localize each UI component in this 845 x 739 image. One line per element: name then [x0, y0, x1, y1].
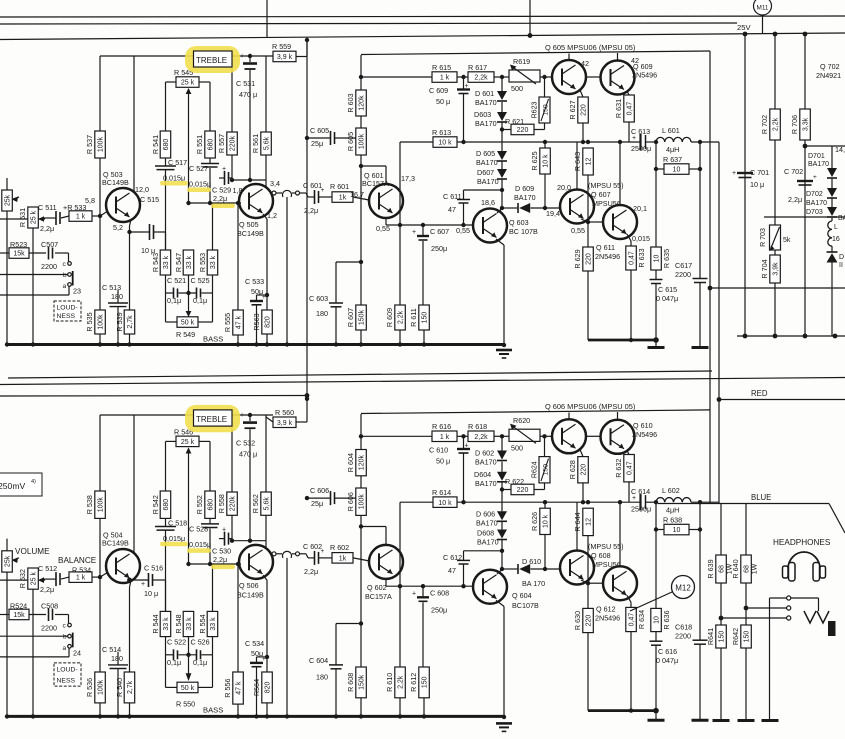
potentiometer R623	[544, 77, 546, 97]
wire Q603 emitter ground	[496, 239, 504, 245]
svg-text:C 616: C 616	[658, 647, 677, 656]
svg-text:3,9 k: 3,9 k	[277, 420, 293, 427]
transistor Q504	[106, 549, 140, 583]
resistor R539	[124, 310, 135, 334]
svg-text:1k: 1k	[339, 556, 347, 563]
svg-text:4μH: 4μH	[666, 505, 679, 514]
svg-text:LOUD-: LOUD-	[57, 305, 78, 312]
svg-text:68: 68	[744, 565, 751, 573]
wire R562 column	[265, 415, 267, 492]
svg-text:150: 150	[422, 312, 429, 324]
svg-text:150: 150	[422, 676, 429, 688]
connector input jacks	[272, 552, 276, 556]
wire R561 column	[265, 56, 267, 132]
svg-text:(MPSU 55): (MPSU 55)	[588, 542, 624, 551]
svg-text:10: 10	[673, 167, 681, 174]
svg-text:+: +	[262, 294, 266, 301]
svg-text:+: +	[412, 229, 416, 236]
svg-text:33 k: 33 k	[210, 617, 217, 631]
svg-text:1 k: 1 k	[440, 434, 450, 441]
wire output line y288	[708, 286, 713, 291]
capacitor C615	[655, 270, 657, 279]
svg-text:C 603: C 603	[309, 294, 328, 303]
svg-text:R 608: R 608	[346, 673, 355, 692]
wire Q607 emitter node	[581, 219, 588, 222]
svg-text:10 k: 10 k	[438, 500, 452, 507]
wire R533 to base	[92, 215, 100, 217]
svg-text:R 538: R 538	[85, 495, 94, 514]
svg-text:BA170: BA170	[476, 519, 498, 528]
svg-text:R564: R564	[252, 679, 261, 696]
svg-text:10 μ: 10 μ	[750, 180, 764, 189]
wire top bus 3 supply 25V	[0, 33, 845, 40]
svg-text:2,7k: 2,7k	[127, 680, 134, 694]
svg-text:+: +	[321, 548, 325, 555]
svg-text:5,6k: 5,6k	[264, 497, 271, 511]
potentiometer R550 bass 50k	[177, 682, 198, 693]
svg-text:BA170: BA170	[808, 161, 829, 168]
svg-text:RED: RED	[751, 389, 768, 398]
svg-text:BA170: BA170	[475, 458, 497, 467]
resistor R636	[655, 502, 657, 608]
svg-text:180: 180	[316, 309, 328, 318]
diode D704	[831, 246, 833, 252]
node base junction Q503	[98, 214, 102, 218]
svg-text:R 610: R 610	[385, 673, 394, 692]
svg-text:R 556: R 556	[223, 679, 232, 698]
svg-text:D 601: D 601	[475, 89, 494, 98]
svg-text:C 512: C 512	[38, 564, 57, 573]
loudness box	[54, 301, 81, 321]
wire Q610 collector	[617, 412, 619, 420]
wire Q610 emitter to R632	[627, 451, 629, 455]
wire collector row Q505	[232, 179, 266, 181]
svg-text:0,55: 0,55	[571, 226, 585, 235]
wire long vertical x710	[709, 51, 711, 504]
svg-text:250μ: 250μ	[431, 605, 447, 614]
svg-text:C 525: C 525	[191, 276, 210, 285]
wire R703 node line	[764, 216, 845, 218]
svg-text:R 548: R 548	[174, 614, 183, 633]
highlight yellow mark 1	[160, 181, 188, 186]
wire R558 column	[231, 427, 233, 492]
svg-text:BC157A: BC157A	[362, 179, 389, 188]
svg-text:C 701: C 701	[750, 168, 769, 177]
wire Q608 emitter node	[581, 580, 588, 583]
svg-text:2,2μ: 2,2μ	[213, 555, 227, 564]
svg-text:+: +	[262, 656, 266, 663]
capacitor C532	[249, 415, 251, 421]
wire R542 column	[165, 441, 167, 491]
svg-text:23: 23	[73, 287, 81, 296]
svg-text:BA 170: BA 170	[522, 579, 545, 588]
transistor Q604	[473, 570, 507, 604]
loudness box	[54, 663, 81, 686]
svg-text:2200: 2200	[675, 632, 691, 641]
svg-text:1 k: 1 k	[76, 575, 86, 582]
wire Q503 emitter column	[130, 219, 132, 226]
highlight yellow mark 3	[211, 204, 235, 209]
svg-text:2,2μ: 2,2μ	[304, 206, 318, 215]
wire Q605 collector	[568, 54, 570, 61]
svg-text:17,3: 17,3	[401, 174, 415, 183]
svg-text:L 602: L 602	[662, 486, 680, 495]
label 250mV box	[0, 473, 42, 496]
wire Q505 emitter	[263, 214, 267, 219]
svg-text:R 639: R 639	[706, 559, 715, 578]
svg-text:100k: 100k	[98, 497, 105, 513]
svg-text:R 706: R 706	[790, 115, 799, 134]
resistor R630	[587, 583, 589, 608]
treble label box	[194, 51, 233, 67]
wire supply row	[361, 76, 432, 78]
svg-text:1k: 1k	[339, 195, 347, 202]
svg-text:120k: 120k	[359, 455, 366, 471]
resistor R551	[205, 131, 216, 158]
svg-text:47 k: 47 k	[236, 681, 243, 695]
wire R538 column	[99, 415, 101, 491]
svg-text:L: L	[834, 224, 838, 231]
resistor R704	[770, 255, 781, 283]
svg-text:C 604: C 604	[309, 656, 328, 665]
svg-text:15k: 15k	[13, 612, 25, 619]
transistor Q506	[239, 545, 273, 579]
wire vertical feed x530	[529, 0, 531, 36]
svg-text:15k: 15k	[13, 251, 25, 258]
svg-text:2N5496: 2N5496	[632, 430, 657, 439]
svg-text:TREBLE: TREBLE	[196, 56, 227, 65]
resistor R639	[720, 504, 722, 556]
transistor Q608	[560, 551, 594, 585]
svg-text:C 702: C 702	[784, 167, 803, 176]
svg-text:C617: C617	[675, 261, 692, 270]
svg-text:C 602: C 602	[303, 542, 322, 551]
svg-text:220: 220	[586, 615, 593, 627]
svg-text:C 516: C 516	[144, 564, 163, 573]
wire Q506 emitter	[263, 575, 267, 580]
wire to Q602 base	[353, 558, 369, 561]
svg-text:2,2k: 2,2k	[398, 310, 405, 324]
resistor R642	[745, 583, 747, 625]
highlight yellow mark 3	[211, 565, 235, 570]
svg-text:R 558: R 558	[217, 494, 226, 513]
svg-text:VOLUME: VOLUME	[15, 547, 50, 556]
wire diode column	[501, 122, 503, 151]
svg-text:100k: 100k	[98, 136, 105, 152]
svg-text:33 k: 33 k	[163, 617, 170, 631]
svg-text:R 704: R 704	[760, 259, 769, 278]
svg-text:R 562: R 562	[251, 494, 260, 513]
svg-text:2200: 2200	[41, 624, 57, 633]
svg-text:D 609: D 609	[515, 184, 534, 193]
svg-text:+: +	[240, 53, 244, 60]
svg-text:BA170: BA170	[477, 177, 499, 186]
svg-text:+: +	[141, 581, 145, 588]
svg-text:1 k: 1 k	[440, 75, 450, 82]
svg-text:680: 680	[208, 139, 215, 151]
svg-text:25k: 25k	[5, 194, 12, 206]
svg-text:Q 606 MPSU06 (MPSU 05): Q 606 MPSU06 (MPSU 05)	[545, 402, 635, 411]
svg-text:1W: 1W	[752, 563, 759, 574]
svg-text:220: 220	[581, 464, 588, 476]
svg-text:C 528: C 528	[189, 525, 208, 534]
svg-text:500: 500	[511, 84, 523, 93]
svg-text:R 561: R 561	[251, 134, 260, 153]
wire Q606 collector	[568, 413, 570, 420]
svg-text:2,7k: 2,7k	[127, 315, 134, 329]
svg-text:220: 220	[581, 104, 588, 116]
svg-text:BC 107B: BC 107B	[509, 227, 538, 236]
svg-text:D701: D701	[808, 153, 825, 160]
svg-text:50 μ: 50 μ	[436, 97, 450, 106]
wire upper rail Q605	[361, 51, 710, 55]
potentiometer R549 bass 50k	[177, 317, 198, 328]
wire Q604 emitter ground	[496, 600, 504, 606]
wire R541 column	[165, 82, 167, 131]
svg-text:820: 820	[265, 316, 272, 328]
svg-text:L 601: L 601	[662, 126, 680, 135]
resistor R641	[720, 583, 722, 625]
svg-text:R 611: R 611	[409, 308, 418, 327]
svg-text:D603: D603	[474, 110, 491, 119]
resistor R555	[237, 203, 239, 310]
svg-text:12,0: 12,0	[135, 185, 149, 194]
svg-text:R 535: R 535	[85, 312, 94, 331]
svg-text:R 629: R 629	[573, 249, 582, 268]
svg-text:2N5496: 2N5496	[632, 71, 657, 80]
svg-text:R 607: R 607	[346, 308, 355, 327]
wire BLUE line	[658, 503, 829, 505]
svg-text:25 k: 25 k	[181, 439, 195, 446]
svg-text:Q 605 MPSU06 (MPSU 05): Q 605 MPSU06 (MPSU 05)	[545, 43, 635, 52]
svg-text:Q 608: Q 608	[591, 551, 611, 560]
svg-text:R 542: R 542	[151, 495, 160, 514]
transistor Q605	[552, 60, 586, 94]
svg-text:14,: 14,	[835, 145, 845, 154]
svg-text:R 703: R 703	[760, 228, 767, 247]
svg-text:BA170: BA170	[806, 200, 827, 207]
wire Q504 emitter column	[130, 580, 132, 587]
resistor R540	[124, 672, 135, 703]
potentiometer R532	[28, 568, 39, 589]
wire right bus verticals	[744, 34, 746, 336]
junction supply column	[305, 397, 309, 401]
transistor Q601	[369, 184, 403, 218]
svg-text:1,2: 1,2	[267, 211, 277, 220]
transistor Q602	[369, 545, 403, 579]
svg-text:20,1: 20,1	[633, 204, 647, 213]
svg-text:R 543: R 543	[151, 253, 160, 272]
wire collector row Q506	[232, 540, 266, 542]
svg-text:HEADPHONES: HEADPHONES	[773, 538, 831, 547]
wire main rail	[400, 141, 433, 143]
resistor R625	[544, 142, 546, 148]
svg-text:0,015μ: 0,015μ	[189, 180, 211, 189]
resistor R610	[395, 667, 406, 698]
svg-text:R 643: R 643	[573, 152, 582, 171]
svg-text:5,2: 5,2	[113, 223, 123, 232]
svg-text:BALANCE: BALANCE	[58, 556, 97, 565]
svg-text:180: 180	[111, 654, 123, 663]
svg-text:Q 611: Q 611	[596, 243, 615, 252]
svg-text:10 k: 10 k	[543, 514, 550, 528]
connector M11	[754, 0, 772, 15]
svg-text:2,2μ: 2,2μ	[213, 194, 227, 203]
resistor R635	[655, 142, 657, 247]
svg-text:250μ: 250μ	[431, 244, 447, 253]
svg-text:0,47: 0,47	[629, 613, 636, 627]
svg-text:Q 607: Q 607	[591, 190, 611, 199]
svg-text:D608: D608	[477, 529, 494, 538]
svg-text:150k: 150k	[359, 309, 366, 325]
wire R604 column	[360, 414, 362, 450]
svg-text:D607: D607	[477, 168, 494, 177]
svg-text:TREBLE: TREBLE	[196, 415, 227, 424]
svg-text:BC149B: BC149B	[237, 590, 264, 599]
resistor R542	[160, 491, 171, 518]
resistor R702	[770, 109, 781, 140]
wire Q601 emitter feed	[361, 165, 386, 167]
svg-text:0 047μ: 0 047μ	[656, 656, 678, 665]
svg-text:220: 220	[586, 253, 593, 265]
svg-text:12: 12	[586, 518, 593, 526]
resistor R564	[262, 672, 273, 703]
wire Q609 emitter to R631	[627, 91, 629, 95]
svg-text:R 640: R 640	[731, 559, 740, 578]
svg-text:C 605: C 605	[310, 126, 329, 135]
svg-text:25 k: 25 k	[31, 571, 38, 585]
svg-text:10 k: 10 k	[543, 154, 550, 168]
svg-text:R 551: R 551	[195, 135, 204, 154]
svg-text:R 614: R 614	[432, 488, 451, 497]
svg-text:BASS: BASS	[203, 335, 223, 344]
svg-text:BA: BA	[838, 215, 845, 222]
wire upper rail Q606	[361, 410, 710, 414]
wire diode column	[501, 482, 503, 511]
headphones icon	[788, 552, 820, 569]
svg-text:(MPSU 55): (MPSU 55)	[588, 181, 624, 190]
svg-text:10 μ: 10 μ	[144, 589, 158, 598]
svg-text:R641: R641	[706, 628, 715, 645]
transistor Q609	[601, 61, 635, 95]
svg-text:R 604: R 604	[346, 453, 355, 472]
svg-text:R 635: R 635	[662, 249, 671, 268]
resistor R547	[183, 250, 194, 275]
svg-text:2,2k: 2,2k	[474, 75, 488, 82]
wire vertical feed x267	[266, 0, 268, 38]
resistor R553	[207, 250, 218, 275]
svg-text:R619: R619	[513, 57, 530, 66]
switch loudness contacts	[68, 623, 72, 627]
transistor Q607	[560, 190, 594, 224]
wire Q602 collector to rail	[385, 579, 387, 586]
svg-text:180: 180	[111, 292, 123, 301]
svg-text:R 605: R 605	[346, 132, 355, 151]
resistor R604	[356, 450, 367, 476]
svg-text:2200: 2200	[675, 270, 691, 279]
svg-text:16: 16	[832, 236, 840, 243]
resistor R543	[160, 250, 171, 275]
svg-text:50 μ: 50 μ	[436, 457, 450, 466]
svg-text:33 k: 33 k	[186, 617, 193, 631]
transistor Q610	[601, 420, 635, 454]
svg-text:R 618: R 618	[468, 422, 487, 431]
svg-text:C 531: C 531	[236, 79, 255, 88]
switch loudness contacts	[68, 262, 72, 266]
svg-text:2,2μ: 2,2μ	[40, 585, 54, 594]
resistor R605	[356, 128, 367, 155]
zobel ground bus	[588, 709, 657, 712]
wire R559 to rail	[296, 56, 307, 58]
svg-text:25 k: 25 k	[31, 210, 38, 224]
highlight yellow mark 2	[187, 188, 211, 193]
svg-text:BA170: BA170	[475, 479, 497, 488]
wire base line Q506	[189, 563, 242, 565]
svg-text:R 601: R 601	[330, 182, 349, 191]
wire left edge row	[0, 579, 28, 581]
svg-text:R 631: R 631	[614, 99, 623, 118]
svg-text:10: 10	[673, 527, 681, 534]
svg-text:C 601: C 601	[303, 181, 322, 190]
svg-text:100k: 100k	[98, 679, 105, 695]
svg-text:II: II	[839, 262, 843, 269]
svg-text:R 531: R 531	[18, 208, 27, 227]
svg-text:68: 68	[719, 565, 726, 573]
resistor R644	[583, 508, 594, 535]
svg-text:0,015μ: 0,015μ	[189, 540, 211, 549]
svg-text:R 554: R 554	[198, 614, 207, 633]
svg-text:R 609: R 609	[385, 308, 394, 327]
svg-text:R 615: R 615	[432, 63, 451, 72]
svg-text:R 638: R 638	[663, 515, 682, 524]
svg-text:180: 180	[316, 673, 328, 682]
svg-text:R 541: R 541	[151, 135, 160, 154]
svg-text:0 047μ: 0 047μ	[656, 294, 678, 303]
svg-text:Q 602: Q 602	[367, 583, 387, 592]
wire Q612 emitter	[627, 595, 631, 602]
resistor R612	[419, 667, 430, 698]
wire Q607 collector	[576, 142, 578, 190]
svg-text:150: 150	[744, 631, 751, 643]
wire treble pot wiper	[188, 89, 190, 203]
svg-text:R 636: R 636	[662, 610, 671, 629]
svg-text:C507: C507	[41, 240, 58, 249]
svg-text:C 532: C 532	[236, 438, 255, 447]
svg-text:R624: R624	[532, 461, 539, 478]
potentiometer 25k left edge	[2, 551, 13, 572]
resistor R609	[395, 305, 406, 330]
wire Q503 collector	[133, 56, 135, 192]
svg-text:D702: D702	[806, 191, 823, 198]
svg-text:10 k: 10 k	[438, 140, 452, 147]
wire Q612 collector	[619, 502, 621, 566]
svg-text:D 606: D 606	[476, 509, 495, 518]
wire left edge row	[0, 218, 28, 220]
svg-text:0,47: 0,47	[629, 251, 636, 265]
resistor R548	[183, 611, 194, 636]
wire jack sleeve ground	[286, 558, 288, 717]
svg-text:NESS: NESS	[57, 677, 76, 684]
svg-text:a: a	[63, 645, 67, 652]
svg-text:b: b	[63, 634, 67, 641]
resistor R633	[626, 246, 637, 270]
svg-text:Q 505: Q 505	[239, 220, 259, 229]
potentiometer R531	[28, 207, 39, 228]
svg-text:50 k: 50 k	[181, 685, 195, 692]
svg-text:D: D	[839, 254, 844, 261]
transistor Q611	[603, 205, 637, 239]
svg-text:a: a	[63, 283, 67, 290]
